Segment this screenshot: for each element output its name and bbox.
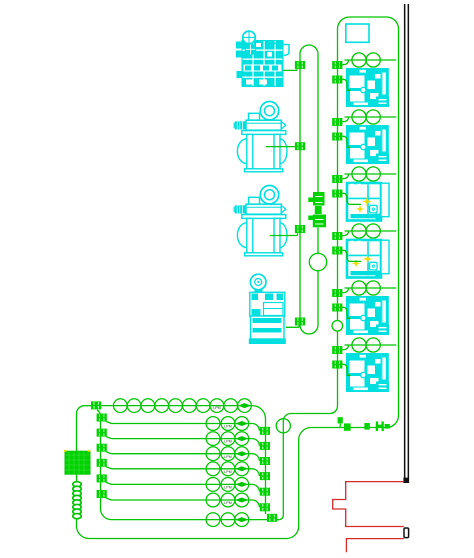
pipe manifold row 5 line bbox=[106, 467, 259, 476]
compressor M1 handle hook bbox=[284, 45, 290, 56]
pump circles bay row 2 bbox=[352, 110, 380, 124]
pipe branch M4 bbox=[286, 326, 299, 328]
valve bay row 5 upper bbox=[332, 289, 342, 297]
valve bay row 5 lower bbox=[332, 304, 342, 312]
pipe manifold row 7 line bbox=[106, 498, 259, 507]
svg-text:LPM: LPM bbox=[224, 455, 231, 459]
pipe hairpin right leg mid bbox=[317, 228, 319, 254]
pipe bay row 2 line bbox=[342, 117, 396, 122]
pipe bay row 1 line bbox=[342, 60, 396, 65]
pipe bay row 6 branch bbox=[342, 364, 350, 375]
hose row 2 circles bbox=[206, 417, 249, 431]
svg-text:LPM: LPM bbox=[213, 406, 220, 410]
hose row 3 circles bbox=[206, 432, 249, 446]
pipe branch M2 bbox=[266, 146, 295, 148]
nozzle diamond row 6 bbox=[235, 482, 248, 487]
pipe manifold left collector bbox=[97, 410, 267, 520]
valve manifold left row 4 bbox=[97, 444, 107, 452]
valve manifold left row 7 bbox=[97, 490, 107, 498]
hose row 7 circles bbox=[206, 493, 249, 507]
pipe bay row 3 line bbox=[342, 174, 396, 179]
pipe bay row 5 line bbox=[342, 288, 396, 293]
valve manifold right row 3 bbox=[260, 442, 270, 450]
pipe bay row 1 branch bbox=[342, 79, 350, 90]
pipe manifold row 4 line bbox=[106, 452, 259, 461]
pipe loading-bay box loop bbox=[77, 17, 399, 539]
truck tanker row 2 bbox=[346, 125, 389, 164]
pipe branch M3 bbox=[270, 233, 298, 235]
sparkle yellow truck3 a bbox=[362, 197, 372, 207]
valve manifold right row 7 bbox=[260, 503, 270, 511]
pipe hairpin right leg upper bbox=[317, 54, 319, 192]
valve manifold right row 4 bbox=[260, 457, 270, 465]
nozzle diamond row 1 bbox=[238, 403, 251, 408]
truck tanker row 4 bbox=[347, 240, 389, 278]
valve bay row 4 upper bbox=[332, 232, 342, 240]
valve bay row 3 upper bbox=[332, 175, 342, 183]
pipe bay row 4 line bbox=[342, 231, 396, 236]
svg-text:LPM: LPM bbox=[224, 440, 231, 444]
flow meter circle on riser bbox=[276, 419, 290, 433]
valve stub bottom edge bbox=[338, 417, 343, 428]
valve bay row 2 upper bbox=[332, 118, 342, 126]
valve block bottom edge left bbox=[344, 423, 351, 430]
pipe branch M1 bbox=[283, 69, 297, 70]
dispenser M4 upper block bbox=[250, 292, 285, 316]
wall black end cap bbox=[403, 478, 409, 483]
valve manifold left row 2 bbox=[97, 414, 107, 422]
compressor M1 fan circle bbox=[243, 31, 256, 44]
hose row 8 circles bbox=[206, 513, 249, 527]
truck tanker row 5 bbox=[346, 296, 389, 335]
nozzle diamond row 8 bbox=[235, 517, 248, 522]
pump M3 bbox=[234, 186, 287, 256]
valve manifold right row 5 bbox=[260, 472, 270, 480]
pipe manifold row 6 line bbox=[106, 482, 259, 491]
valve manifold left row 6 bbox=[97, 474, 107, 482]
valve manifold bottom outlet bbox=[267, 514, 279, 522]
svg-text:LPM: LPM bbox=[224, 470, 231, 474]
valve manifold right row 2 bbox=[260, 427, 270, 435]
tank cyan square bbox=[346, 24, 369, 42]
hose row 5 circles bbox=[206, 462, 249, 476]
compressor M1 body bbox=[242, 40, 284, 87]
wall red upper outline bbox=[333, 482, 404, 527]
pipe bay row 4 branch bbox=[342, 250, 361, 261]
meter circle on hairpin right leg bbox=[309, 253, 326, 270]
dispenser M4 base bbox=[249, 316, 286, 344]
pipe hairpin arch bbox=[300, 45, 318, 54]
valve branch M1 bbox=[295, 61, 305, 69]
sparkle yellow truck4 a bbox=[363, 254, 373, 264]
pipe manifold row 1 line bbox=[99, 406, 265, 514]
pipe bay row 2 branch bbox=[342, 136, 350, 147]
svg-text:LPM: LPM bbox=[224, 501, 231, 505]
dispenser M4 neck bbox=[255, 289, 263, 292]
hose row 6 circles bbox=[206, 478, 249, 492]
control valve assembly on hairpin bbox=[308, 192, 326, 227]
compressor M1 left tabs bbox=[236, 42, 242, 79]
pump M2 bbox=[234, 102, 287, 172]
nozzle diamond row 2 bbox=[235, 421, 248, 426]
pipe bay row 5 branch bbox=[342, 307, 350, 318]
svg-text:LPM: LPM bbox=[224, 425, 231, 429]
pump circles bay row 1 bbox=[352, 53, 380, 67]
pipe hairpin u-bend bbox=[300, 325, 318, 334]
filter crosshatch box bbox=[65, 451, 90, 474]
pipe hairpin left leg bbox=[299, 54, 301, 325]
truck tanker row 1 bbox=[346, 68, 389, 107]
gauge circle on bay edge bbox=[332, 321, 343, 332]
valve bay row 6 lower bbox=[332, 361, 342, 369]
valve manifold row 1 head bbox=[91, 401, 101, 409]
pipe manifold row 3 line bbox=[106, 437, 259, 446]
valve bay row 3 lower bbox=[332, 190, 342, 198]
sparkle yellow truck3 b bbox=[356, 205, 364, 213]
pipe meter riser bbox=[276, 414, 291, 520]
nozzle diamond row 3 bbox=[235, 436, 248, 441]
compressor M1 lower circle bbox=[245, 44, 255, 54]
gate valve bottom edge bbox=[376, 421, 390, 431]
pipe manifold row 2 line bbox=[106, 422, 259, 431]
nozzle diamond row 5 bbox=[235, 466, 248, 471]
yellow corner dot right bbox=[88, 450, 91, 452]
pump circles bay row 6 bbox=[352, 338, 380, 352]
valve branch M4 bbox=[295, 318, 305, 326]
yellow corner dot left bbox=[64, 450, 67, 452]
nozzle diamond row 7 bbox=[235, 498, 248, 503]
pump circles bay row 3 bbox=[352, 167, 380, 181]
svg-text:LPM: LPM bbox=[224, 486, 231, 490]
hose coil row 1 circles bbox=[113, 399, 251, 413]
valve bay row 1 upper bbox=[332, 61, 342, 69]
valve bay row 1 lower bbox=[332, 76, 342, 84]
truck tanker row 6 bbox=[346, 353, 389, 392]
pump circles bay row 5 bbox=[352, 281, 380, 295]
truck tanker row 3 bbox=[347, 183, 389, 221]
valve bay row 2 lower bbox=[332, 133, 342, 141]
wall black pillar bottom bbox=[404, 528, 409, 538]
hose row 4 circles bbox=[206, 447, 249, 461]
dispenser M4 gauge circle bbox=[250, 274, 266, 290]
wall red lower outline bbox=[346, 539, 403, 553]
valve bay row 4 lower bbox=[332, 247, 342, 255]
valve manifold right row 6 bbox=[260, 488, 270, 496]
pipe bay row 6 line bbox=[342, 345, 396, 350]
compressor M1 pennant bbox=[272, 41, 278, 46]
valve manifold left row 5 bbox=[97, 459, 107, 467]
nozzle diamond row 4 bbox=[235, 451, 248, 456]
pump circles bay row 4 bbox=[352, 224, 380, 238]
valve block bottom edge mid bbox=[364, 423, 369, 430]
sparkle yellow truck4 b bbox=[352, 259, 360, 267]
wall black double line right bbox=[408, 4, 410, 479]
pipe bay row 3 branch bbox=[342, 193, 361, 204]
valve manifold left row 3 bbox=[97, 429, 107, 437]
wall black double line left bbox=[404, 4, 406, 479]
valve branch M3 bbox=[295, 225, 305, 233]
pipe hairpin right leg lower bbox=[317, 271, 319, 325]
hose chain beads bbox=[73, 482, 81, 519]
valve branch M2 bbox=[295, 142, 305, 150]
valve bay row 6 upper bbox=[332, 346, 342, 354]
